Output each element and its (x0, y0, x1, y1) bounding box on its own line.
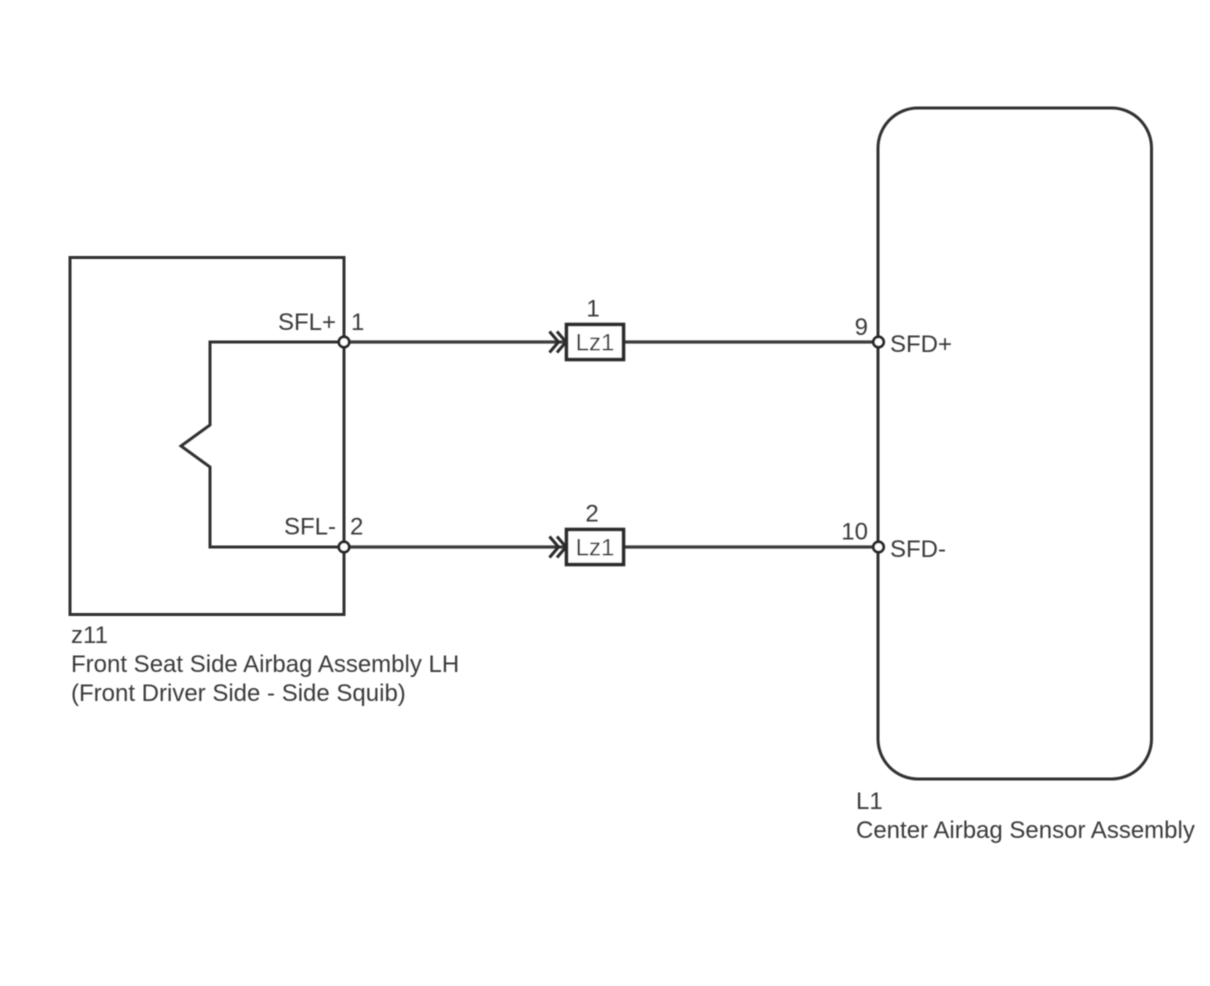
svg-text:SFD-: SFD- (890, 536, 946, 563)
wire pin1 SFL+ to SFD+ (344, 340, 878, 343)
svg-text:SFL-: SFL- (284, 514, 336, 541)
svg-text:10: 10 (841, 519, 868, 546)
svg-text:Lz1: Lz1 (576, 535, 615, 562)
svg-text:2: 2 (350, 514, 363, 541)
squib element inside z11 (181, 342, 344, 547)
connector Lz1 lower (pin 2) chevrons (550, 537, 567, 558)
svg-text:Center Airbag Sensor Assembly: Center Airbag Sensor Assembly (856, 817, 1195, 844)
connector Lz1 upper (pin 1) chevrons (550, 332, 567, 353)
wire pin2 SFL- to SFD- (344, 545, 878, 548)
svg-text:(Front Driver Side - Side Squi: (Front Driver Side - Side Squib) (71, 680, 406, 707)
component L1 Center Airbag Sensor Assembly box (878, 108, 1152, 779)
svg-text:L1: L1 (856, 788, 883, 815)
svg-text:Lz1: Lz1 (576, 330, 615, 357)
node pin 2 of z11 (339, 542, 349, 552)
node pin 9 of L1 (873, 337, 883, 347)
svg-text:SFD+: SFD+ (890, 331, 952, 358)
node pin 1 of z11 (339, 337, 349, 347)
connector Lz1 lower (pin 2) box (567, 530, 624, 565)
svg-text:1: 1 (351, 309, 364, 336)
svg-text:2: 2 (585, 501, 598, 528)
svg-text:SFL+: SFL+ (278, 309, 336, 336)
svg-text:9: 9 (855, 314, 868, 341)
node pin 10 of L1 (873, 542, 883, 552)
component z11 Front Seat Side Airbag Assembly LH box (70, 258, 344, 615)
svg-text:z11: z11 (71, 622, 108, 649)
connector Lz1 upper (pin 1) box (567, 325, 624, 360)
svg-text:1: 1 (586, 296, 599, 323)
svg-text:Front Seat Side Airbag Assembl: Front Seat Side Airbag Assembly LH (71, 651, 459, 678)
